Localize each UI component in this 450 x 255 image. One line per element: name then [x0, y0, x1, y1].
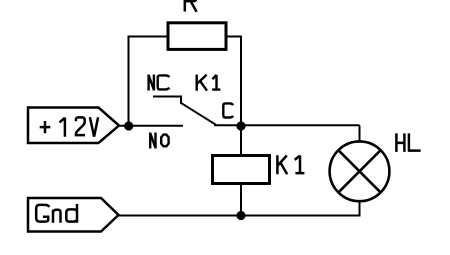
wire: resistor left lead	[129, 36, 168, 38]
reference label K1 (coil)	[277, 155, 304, 174]
resistor R	[168, 23, 226, 50]
wire: coil to ground node	[240, 183, 242, 216]
lamp HL	[330, 141, 390, 201]
wire: node C to lamp (horizontal)	[241, 124, 360, 126]
wire: resistor right lead	[226, 36, 241, 38]
relay coil K1	[213, 156, 270, 184]
terminal Gnd flag	[28, 198, 119, 232]
wire: ground rail	[119, 215, 361, 217]
wire: right vertical from resistor lead down to node C	[240, 36, 242, 127]
wire: lamp top vertical	[359, 125, 361, 142]
lamp HL cross stroke 2	[338, 150, 380, 192]
junction node A	[124, 121, 133, 130]
reference label HL	[396, 133, 420, 152]
value label R of resistor (clipped at top)	[184, 0, 197, 12]
reference label K1 (contact)	[197, 75, 221, 91]
wire: lamp bottom vertical	[359, 201, 361, 216]
net label Gnd	[36, 204, 77, 223]
relay contact K1: NC fixed contact line	[153, 96, 181, 98]
relay contact K1: armature from NC to common C	[181, 96, 216, 125]
pin label C	[223, 103, 233, 117]
wire: left vertical from resistor lead down to +12V node	[128, 36, 130, 127]
pin label NC	[149, 75, 170, 91]
wire: +12V tip to NO contact	[119, 125, 183, 127]
terminal +12V flag	[28, 108, 119, 144]
lamp HL cross stroke 1	[338, 150, 380, 192]
junction node on ground rail	[236, 211, 245, 220]
wire: armature common to node C	[214, 124, 241, 126]
junction node C	[236, 121, 245, 130]
pin label NO	[150, 133, 168, 149]
net label +12V	[40, 117, 98, 137]
wire: node C down to relay coil	[240, 126, 242, 156]
